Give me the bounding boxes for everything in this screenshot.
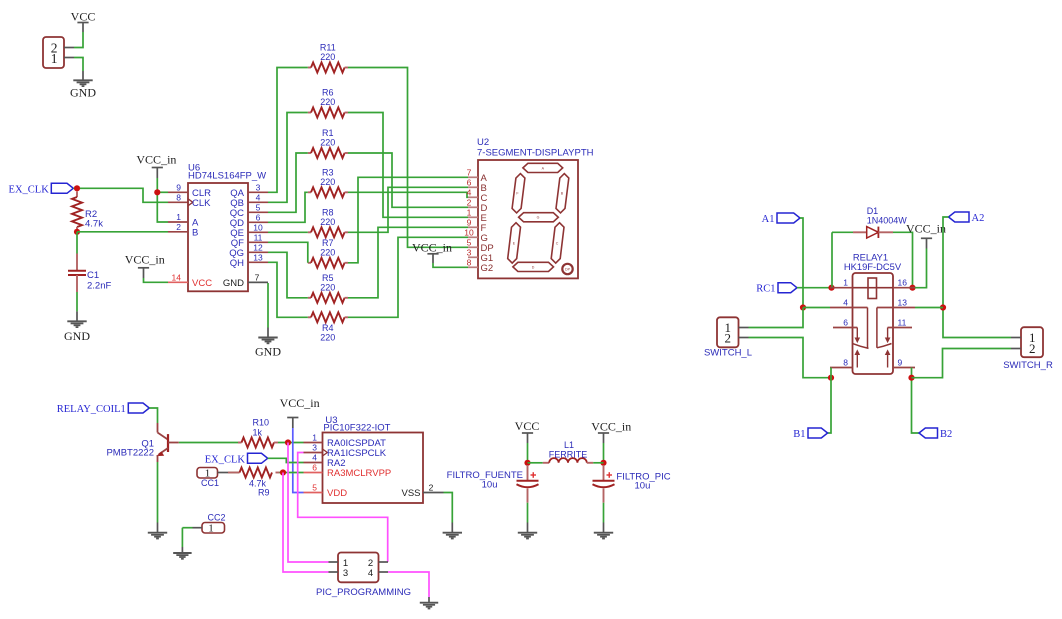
svg-text:SWITCH_R: SWITCH_R: [1003, 360, 1053, 371]
svg-text:1k: 1k: [253, 428, 263, 438]
svg-text:12: 12: [253, 242, 263, 252]
svg-text:PIC_PROGRAMMING: PIC_PROGRAMMING: [316, 587, 411, 598]
svg-text:2: 2: [1029, 341, 1036, 356]
svg-text:10: 10: [253, 222, 263, 232]
svg-text:10u: 10u: [482, 480, 498, 491]
svg-text:A2: A2: [972, 213, 985, 224]
svg-text:8: 8: [467, 258, 472, 268]
svg-text:RELAY_COIL1: RELAY_COIL1: [57, 404, 126, 415]
svg-text:A1: A1: [762, 214, 775, 225]
svg-text:4: 4: [843, 298, 848, 308]
svg-text:GND: GND: [70, 86, 96, 100]
svg-text:VCC: VCC: [515, 419, 540, 433]
svg-text:2: 2: [467, 198, 472, 208]
svg-text:6: 6: [312, 463, 317, 473]
svg-text:220: 220: [320, 247, 335, 257]
svg-text:13: 13: [253, 252, 263, 262]
svg-text:11: 11: [254, 232, 263, 242]
svg-text:EX_CLK: EX_CLK: [205, 454, 246, 465]
svg-text:2: 2: [176, 222, 181, 232]
svg-text:VCC_in: VCC_in: [136, 152, 176, 166]
svg-text:1: 1: [843, 278, 848, 288]
svg-text:3: 3: [343, 568, 348, 579]
svg-text:VDD: VDD: [327, 488, 347, 499]
svg-text:10: 10: [464, 228, 474, 238]
svg-text:9: 9: [467, 218, 472, 228]
svg-text:7-SEGMENT-DISPLAYPTH: 7-SEGMENT-DISPLAYPTH: [477, 148, 594, 159]
svg-text:VCC_in: VCC_in: [591, 420, 631, 434]
svg-text:FERRITE: FERRITE: [549, 450, 588, 460]
svg-text:2: 2: [429, 483, 434, 493]
svg-text:VCC: VCC: [192, 278, 212, 289]
svg-text:2: 2: [725, 331, 732, 346]
svg-text:VCC_in: VCC_in: [412, 240, 452, 254]
svg-text:GND: GND: [64, 329, 90, 343]
svg-text:G: G: [537, 216, 540, 220]
svg-text:HD74LS164FP_W: HD74LS164FP_W: [188, 171, 266, 182]
svg-text:CLK: CLK: [192, 198, 211, 209]
svg-text:220: 220: [320, 97, 335, 107]
svg-text:220: 220: [320, 332, 335, 342]
svg-text:CC1: CC1: [201, 478, 219, 488]
svg-text:5: 5: [256, 202, 261, 212]
svg-text:220: 220: [320, 138, 335, 148]
svg-text:1: 1: [343, 558, 348, 569]
svg-text:DP: DP: [565, 267, 571, 271]
svg-text:9: 9: [176, 182, 181, 192]
svg-text:C1: C1: [87, 270, 99, 281]
svg-text:6: 6: [256, 212, 261, 222]
svg-text:5: 5: [467, 238, 472, 248]
svg-text:HK19F-DC5V: HK19F-DC5V: [844, 261, 902, 272]
svg-text:8: 8: [176, 192, 181, 202]
svg-text:1N4004W: 1N4004W: [867, 216, 908, 226]
svg-text:2: 2: [368, 558, 373, 569]
svg-text:PMBT2222: PMBT2222: [106, 447, 154, 458]
svg-text:1: 1: [176, 212, 181, 222]
svg-text:EX_CLK: EX_CLK: [9, 184, 50, 195]
svg-text:D1: D1: [867, 206, 879, 216]
svg-text:GND: GND: [255, 345, 281, 359]
svg-text:4: 4: [467, 188, 472, 198]
svg-text:9: 9: [898, 358, 903, 368]
svg-text:6: 6: [843, 318, 848, 328]
svg-text:220: 220: [320, 282, 335, 292]
svg-text:16: 16: [898, 278, 908, 288]
svg-text:B: B: [192, 227, 198, 238]
svg-text:VCC_in: VCC_in: [906, 221, 946, 235]
svg-text:7: 7: [467, 168, 472, 178]
svg-text:1: 1: [51, 51, 58, 66]
svg-text:3: 3: [256, 182, 261, 192]
svg-text:3: 3: [312, 443, 317, 453]
svg-text:220: 220: [320, 52, 335, 62]
svg-text:6: 6: [467, 178, 472, 188]
svg-text:1: 1: [467, 208, 472, 218]
svg-text:10u: 10u: [635, 481, 651, 492]
svg-text:RA3MCLRVPP: RA3MCLRVPP: [327, 468, 391, 479]
svg-text:SWITCH_L: SWITCH_L: [704, 347, 752, 358]
svg-text:220: 220: [320, 177, 335, 187]
svg-text:5: 5: [312, 483, 317, 493]
svg-text:G2: G2: [481, 263, 494, 274]
svg-text:4: 4: [368, 568, 373, 579]
svg-text:RC1: RC1: [756, 284, 775, 295]
svg-text:220: 220: [320, 217, 335, 227]
svg-text:11: 11: [898, 318, 907, 328]
svg-text:CC2: CC2: [207, 512, 225, 522]
svg-text:8: 8: [843, 358, 848, 368]
svg-text:D: D: [532, 265, 535, 269]
svg-text:B2: B2: [940, 429, 952, 440]
svg-text:1: 1: [312, 433, 317, 443]
svg-text:PIC10F322-IOT: PIC10F322-IOT: [323, 422, 390, 433]
svg-text:C: C: [556, 242, 559, 246]
svg-text:4: 4: [312, 453, 317, 463]
svg-text:B1: B1: [793, 429, 805, 440]
svg-text:7: 7: [255, 272, 260, 282]
svg-text:U2: U2: [477, 137, 489, 148]
svg-text:R9: R9: [258, 488, 270, 498]
svg-text:VCC_in: VCC_in: [280, 396, 320, 410]
svg-text:VSS: VSS: [401, 488, 420, 499]
svg-text:14: 14: [172, 272, 182, 282]
svg-text:VCC: VCC: [71, 9, 96, 23]
svg-text:3: 3: [467, 248, 472, 258]
svg-text:R4: R4: [322, 323, 334, 333]
svg-text:L1: L1: [564, 440, 574, 450]
svg-text:VCC_in: VCC_in: [125, 252, 165, 266]
svg-text:13: 13: [898, 298, 908, 308]
svg-text:QH: QH: [230, 258, 244, 269]
svg-text:2.2nF: 2.2nF: [87, 281, 111, 292]
svg-text:4.7k: 4.7k: [85, 219, 103, 230]
svg-text:R10: R10: [253, 418, 270, 428]
svg-text:GND: GND: [223, 278, 244, 289]
svg-text:1: 1: [208, 522, 214, 534]
svg-text:4: 4: [256, 192, 261, 202]
